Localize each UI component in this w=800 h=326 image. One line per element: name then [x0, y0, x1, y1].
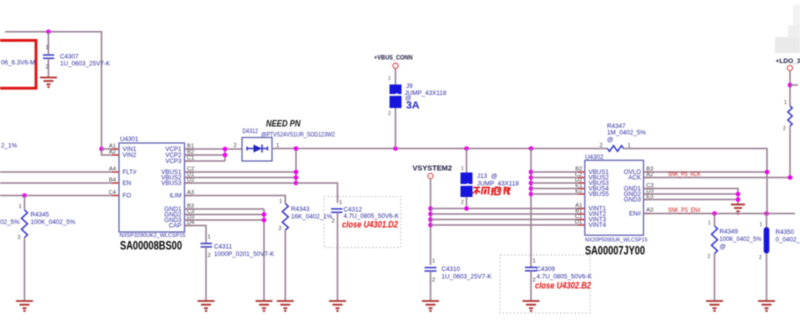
wire ILIM to R4343 [185, 196, 286, 204]
capacitor C4307 [43, 32, 54, 77]
wire GND1 row [185, 208, 265, 210]
wire GND3 row [185, 219, 265, 221]
svg-text:1: 1 [784, 100, 787, 106]
svg-text:A3: A3 [646, 208, 653, 214]
pin stubs U4301 right [185, 149, 193, 226]
svg-text:02_5%: 02_5% [0, 219, 20, 226]
svg-text:1: 1 [533, 259, 536, 265]
svg-text:+VBUS_CONN: +VBUS_CONN [374, 55, 413, 62]
resistor R4350 zero-ohm body [764, 214, 770, 301]
wire VBUS5 row to U4302 [531, 193, 585, 195]
node junction GND2 tie [262, 212, 267, 217]
svg-text:NX20P5090UK_WLCSP15: NX20P5090UK_WLCSP15 [585, 238, 648, 244]
svg-text:0_0402_: 0_0402_ [776, 237, 800, 244]
power symbol +VBUS_CONN [393, 63, 398, 68]
node junction bus / J13 [464, 146, 469, 151]
svg-text:1: 1 [339, 200, 342, 206]
svg-text:1000P_0201_50V7-K: 1000P_0201_50V7-K [214, 251, 275, 258]
node junction VBUS5 U4302 [529, 192, 534, 197]
power symbol +LDO_3 [787, 65, 792, 70]
capacitor C4310 [425, 268, 437, 301]
svg-text:EN: EN [123, 180, 132, 187]
svg-text:2: 2 [18, 235, 21, 241]
svg-text:D4312: D4312 [243, 128, 259, 135]
svg-text:+LDO_3V: +LDO_3V [776, 58, 800, 65]
wire R4347 to OVLO corner [624, 149, 768, 214]
svg-text:C4310: C4310 [442, 266, 461, 273]
ground for R4350 [758, 301, 775, 311]
wire VIN1 row [102, 148, 120, 150]
wire VINT1 row [431, 208, 585, 210]
node junction VBUS3 U4302 [529, 181, 534, 186]
svg-text:SNK_PS_ACK: SNK_PS_ACK [668, 171, 701, 178]
wire VBUS3 row to U4302 [531, 182, 585, 184]
wire VBUS3 row [185, 182, 297, 184]
svg-text:R4350: R4350 [776, 229, 795, 236]
wire U4302 VBUS tie vertical from bus to C4309 [530, 149, 532, 268]
ground for C4311 [198, 301, 215, 311]
svg-text:1U_0603_25V7-K: 1U_0603_25V7-K [442, 274, 493, 281]
svg-text:VBUS5: VBUS5 [589, 191, 610, 198]
node junction VSYSTEM2 / VINT2 [428, 212, 433, 217]
node junction VBUS1 tie [294, 170, 299, 175]
svg-text:2: 2 [461, 200, 464, 206]
wire VINT3 row [431, 219, 585, 221]
wire GND3 U4302 [644, 199, 739, 201]
node junction VBUS4 U4302 [529, 186, 534, 191]
node junction VBUS2 tie [294, 175, 299, 180]
wire GND2 row [185, 214, 265, 216]
wire VBUS1 row [185, 171, 297, 173]
svg-text:U4302: U4302 [585, 154, 604, 161]
ground for R4349 [706, 301, 723, 311]
svg-text:C4311: C4311 [214, 244, 233, 251]
node junction VSYSTEM2 / VINT3 [428, 217, 433, 222]
wire J13 from bus [466, 149, 468, 173]
wire FLT# row from left edge [0, 171, 119, 173]
svg-text:1: 1 [461, 166, 464, 172]
svg-text:EN#: EN# [629, 211, 642, 218]
ground for U4301 GND pins [256, 301, 273, 311]
node junction J13 / VINT1 [464, 206, 469, 211]
svg-text:1: 1 [388, 76, 391, 82]
node junction OVLO / pullup [765, 170, 770, 175]
pin stubs U4301 left [112, 149, 119, 196]
wire VBUS3 extension to C4312 [296, 183, 338, 203]
svg-text:2: 2 [783, 126, 786, 132]
wire VBUS tie vertical from bus [295, 149, 297, 184]
capacitor C4312 [331, 209, 343, 301]
svg-text:VSYSTEM2: VSYSTEM2 [413, 164, 452, 173]
svg-text:VBUS3: VBUS3 [161, 180, 182, 187]
svg-text:@: @ [720, 244, 726, 251]
svg-text:NEED PN: NEED PN [266, 119, 301, 130]
svg-text:1: 1 [279, 199, 282, 205]
ground for R4343 [277, 301, 294, 311]
dashed note box close U4301.D2 [324, 197, 401, 248]
wire VCP1 row to diode [185, 148, 243, 150]
wire VBUS2 row to U4302 [531, 177, 585, 179]
svg-text:C4309: C4309 [537, 266, 556, 273]
svg-text:SA00007JY00: SA00007JY00 [585, 246, 645, 258]
wire VIN2 row [102, 149, 120, 155]
wire VBUS1 row to U4302 [531, 171, 585, 173]
svg-text:2: 2 [600, 143, 603, 149]
jumper J9 [390, 85, 402, 109]
svg-text:2: 2 [708, 254, 711, 260]
svg-text:1: 1 [46, 45, 49, 51]
node junction VSYSTEM2 / VINT1 [428, 206, 433, 211]
svg-text:NX5P3290UK2_WLCSP15: NX5P3290UK2_WLCSP15 [120, 233, 186, 239]
node junction VBUS3 tie [294, 181, 299, 186]
svg-text:VINT4: VINT4 [589, 222, 607, 229]
svg-text:1: 1 [708, 221, 711, 227]
wire OVLO to pullup [644, 171, 768, 173]
wire J13 to VINT1 [466, 197, 468, 209]
dashed note box close U4302.B2 [500, 255, 590, 313]
pin stubs U4302 left [578, 172, 585, 225]
svg-text:U4301: U4301 [120, 136, 139, 143]
ground for C4309 [523, 301, 540, 311]
node junction ACK / pullup [788, 175, 793, 180]
power symbol VSYSTEM2 [428, 173, 433, 178]
wire CAP pin to C4311 [185, 226, 207, 244]
resistor R4349 [712, 214, 718, 301]
ground for R4345 [16, 301, 33, 311]
node junction VBUS2 U4302 [529, 175, 534, 180]
capacitor C4309 [525, 267, 537, 300]
ground for U4302 GND pins [731, 205, 745, 214]
svg-text:100K_0402_5%: 100K_0402_5% [31, 219, 76, 226]
node junction EN# / R4349 [712, 211, 717, 216]
gray patch top right 2 [788, 25, 800, 53]
svg-text:2_1%: 2_1% [1, 143, 18, 150]
node junction GND3 tie [262, 218, 267, 223]
svg-text:SNK_PS_EN#: SNK_PS_EN# [668, 207, 701, 214]
ground for C4312 [329, 301, 346, 311]
diode D4312 TVS body [242, 138, 272, 162]
IC U4301 load switch body [119, 143, 185, 232]
svg-text:CAP: CAP [169, 223, 182, 230]
note 不同調板 [472, 187, 511, 195]
svg-text:JUMP_43X118: JUMP_43X118 [477, 181, 519, 188]
wire GND2 U4302 [644, 193, 739, 195]
node junction VBUS1 U4302 [529, 170, 534, 175]
node junction VCP2 tie [223, 153, 228, 158]
node junction bus / VBUS tie [294, 146, 299, 151]
node junction R4345 tap [22, 193, 27, 198]
wire stub right from +LDO_3 [790, 84, 798, 86]
svg-text:VIN2: VIN2 [123, 152, 137, 159]
svg-text:1: 1 [432, 259, 435, 265]
node junction VIN1 tap [99, 147, 104, 152]
svg-text:@: @ [491, 173, 497, 180]
svg-text:J9: J9 [406, 83, 413, 90]
capacitor C4311 [201, 244, 213, 301]
node junction GND3 U4302 [736, 197, 741, 202]
svg-text:3A: 3A [406, 100, 420, 112]
ground for C4310 [422, 301, 439, 311]
svg-text:close U4302.B2: close U4302.B2 [535, 280, 591, 290]
svg-text:@: @ [607, 137, 613, 144]
node junction EN# / R4350 [764, 211, 769, 216]
svg-text:R4343: R4343 [291, 206, 310, 213]
pin stubs U4302 right [644, 172, 652, 214]
svg-text:R4349: R4349 [720, 229, 739, 236]
wire top net from left edge to corner down to U4301 VIN [5, 32, 102, 149]
node junction VSYSTEM2 / VINT4 [428, 223, 433, 228]
wire GND1 U4302 [644, 189, 739, 205]
wire VCP tie vertical [224, 149, 226, 161]
svg-text:R4345: R4345 [31, 212, 50, 219]
gray patch top right 3 [775, 37, 800, 53]
gray patch top right 1 [793, 5, 800, 30]
wire VCP3 row [185, 160, 226, 162]
wire VINT4 row [431, 224, 585, 226]
svg-text:1: 1 [19, 204, 22, 210]
wire EN row from left edge [0, 182, 119, 184]
resistor R4348 pullup [788, 106, 792, 126]
wire VINT2 row [431, 213, 585, 215]
resistor R4347 [608, 146, 624, 152]
svg-text:2: 2 [332, 219, 335, 225]
wire +VBUS_CONN to J9 [395, 68, 397, 84]
svg-text:close U4301.D2: close U4301.D2 [342, 219, 398, 229]
svg-text:ILIM: ILIM [169, 193, 181, 200]
svg-text:2: 2 [388, 111, 391, 117]
wire GND tie vertical down to ground [263, 209, 265, 301]
svg-text:2: 2 [208, 253, 211, 259]
node junction VCP1 tie [223, 147, 228, 152]
wire VBUS bus from diode to R4347 [272, 148, 608, 150]
wire J9 to bus [395, 108, 397, 149]
svg-text:FO: FO [123, 193, 132, 200]
IC U4302 sink power switch body [585, 160, 644, 235]
wire VBUS4 row to U4302 [531, 188, 585, 190]
node junction bus / J9 [393, 146, 398, 151]
svg-text:2: 2 [432, 278, 435, 284]
wire +LDO_3 down [789, 71, 791, 106]
svg-text:J13: J13 [477, 173, 488, 180]
jumper J13 [461, 173, 473, 198]
svg-text:1: 1 [760, 222, 763, 228]
resistor R4345 [22, 196, 28, 301]
wire FO row from left edge [0, 195, 119, 197]
red highlight box (capacitor off-page, left edge) [0, 40, 36, 88]
resistor R4343 [282, 204, 288, 301]
wire VCP2 row [185, 154, 226, 156]
wire VBUS2 row [185, 177, 297, 179]
svg-text:1U_0603_25V7-K: 1U_0603_25V7-K [60, 61, 111, 68]
svg-text:ACK: ACK [628, 175, 642, 182]
node junction +LDO_3 stub [788, 83, 793, 88]
node junction C4307 tap [46, 30, 51, 35]
svg-text:1: 1 [208, 235, 211, 241]
node junction bus / U4302 VBUS tie [529, 146, 534, 151]
svg-text:2: 2 [279, 226, 282, 232]
wire ACK row [644, 177, 794, 179]
svg-text:VCP3: VCP3 [165, 158, 182, 165]
svg-text:FLT#: FLT# [123, 169, 138, 176]
wire pullup resistor to ACK junction [789, 126, 791, 178]
wire EN# row [644, 213, 796, 215]
svg-text:2: 2 [759, 255, 762, 261]
wire VSYSTEM2 down to C4310 [430, 179, 432, 265]
svg-text:06_6.3V6-M: 06_6.3V6-M [1, 60, 35, 67]
svg-text:2: 2 [234, 143, 237, 149]
svg-text:100K_0402_5%: 100K_0402_5% [720, 236, 762, 243]
svg-text:GND3: GND3 [624, 197, 642, 204]
svg-text:C4307: C4307 [60, 54, 79, 61]
svg-text:SA00008BS00: SA00008BS00 [120, 241, 182, 253]
node junction GND2 U4302 [736, 192, 741, 197]
ground for C4307 [40, 78, 57, 88]
svg-text:2: 2 [46, 65, 49, 71]
svg-text:1M_0402_5%: 1M_0402_5% [607, 130, 646, 137]
svg-text:16K_0402_1%: 16K_0402_1% [291, 214, 333, 221]
